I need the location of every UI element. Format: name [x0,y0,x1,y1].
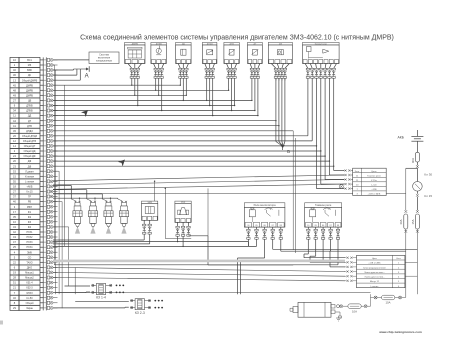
svg-text:ДНО: ДНО [27,267,32,270]
svg-text:ДПКВ: ДПКВ [26,105,33,108]
svg-text:15А: 15А [411,219,415,224]
svg-text:Блок предохранителей: Блок предохранителей [363,266,386,269]
svg-text:L-лин: L-лин [371,184,377,186]
svg-text:К 15а: К 15а [371,180,377,182]
svg-text:ЭМК: ЭМК [27,251,33,254]
svg-text:Цепь: Цепь [371,171,377,173]
svg-text:Масса2: Масса2 [25,277,34,280]
svg-text:КЗ 1-4: КЗ 1-4 [96,296,106,300]
svg-text:Кл.15: Кл.15 [26,191,33,194]
svg-text:Реле вентилятора: Реле вентилятора [254,203,276,207]
svg-text:www.chip-tuningmotors.com: www.chip-tuningmotors.com [378,330,422,334]
svg-text:МЗ: МЗ [28,64,32,67]
svg-text:КЗ2-3: КЗ2-3 [26,287,33,290]
svg-text:Конт: Конт [396,258,401,260]
svg-text:ДФ: ДФ [28,160,32,163]
svg-text:Общий: Общий [26,302,35,305]
svg-text:АКБ: АКБ [398,136,405,140]
svg-text:ДМРВ: ДМРВ [26,89,33,92]
svg-text:90А: 90А [411,158,415,163]
svg-text:Б: Б [287,149,290,154]
svg-text:Схема соединений элементов сис: Схема соединений элементов системы управ… [80,33,394,41]
svg-text:Общий ДТ: Общий ДТ [24,145,36,148]
svg-text:Лампа диагностики +: Лампа диагностики + [364,272,385,274]
svg-text:ДТВ: ДТВ [27,125,32,128]
svg-text:ЦВ: ЦВ [28,100,32,103]
svg-text:Лампа диагностики -: Лампа диагностики - [364,277,384,279]
svg-text:ЭПХХ: ЭПХХ [26,292,33,295]
svg-text:+12В от АКБ: +12В от АКБ [368,193,381,196]
svg-text:ТАХО: ТАХО [26,261,32,264]
svg-text:+12В от АКБ: +12В от АКБ [368,262,381,265]
svg-text:РХХ1: РХХ1 [26,231,33,234]
svg-text:+12В: +12В [371,189,377,191]
svg-text:10А: 10А [352,309,357,313]
svg-text:10А: 10А [386,301,391,305]
svg-text:РХХ2: РХХ2 [26,236,33,239]
svg-text:Минус 12: Минус 12 [370,281,380,283]
svg-text:ВС1: ВС1 [27,59,32,62]
svg-text:L-линия: L-линия [25,181,35,184]
svg-text:ДПКВ: ДПКВ [26,110,33,113]
svg-text:ДД: ДД [28,115,32,118]
svg-text:А: А [85,74,89,80]
svg-text:Кл.50: Кл.50 [26,297,33,300]
svg-text:Масса1: Масса1 [25,272,34,275]
svg-text:ВЗФ: ВЗФ [27,69,32,72]
svg-text:кондиционера: кондиционера [96,60,112,63]
svg-text:Общий ДД: Общий ДД [24,150,36,153]
svg-text:30А: 30А [399,219,403,224]
svg-text:Главное реле: Главное реле [367,175,382,177]
svg-text:Общий ДФ: Общий ДФ [24,155,36,158]
svg-text:РХХ4: РХХ4 [26,246,33,249]
svg-text:Л.диагн: Л.диагн [25,170,34,173]
svg-text:Главное реле: Главное реле [315,203,332,207]
svg-text:Кл 15: Кл 15 [424,194,432,198]
svg-text:ГР: ГР [28,196,31,199]
svg-text:РВ: РВ [28,201,32,204]
svg-text:К-линия: К-линия [25,175,35,178]
svg-text:Цепь: Цепь [372,258,377,260]
svg-text:Конт: Конт [355,171,360,173]
svg-text:РХХ3: РХХ3 [26,241,33,244]
svg-text:ДТ: ДТ [28,120,32,123]
svg-text:L-линия: L-линия [371,286,379,288]
svg-text:Кл 30: Кл 30 [424,173,432,177]
svg-text:Общий ДТВ: Общий ДТВ [23,140,37,143]
svg-text:Общий ДПДЗ: Общий ДПДЗ [22,135,37,138]
svg-text:ДС: ДС [28,74,32,77]
svg-text:ДПДЗ: ДПДЗ [26,130,33,133]
svg-text:ДМРВ: ДМРВ [26,94,33,97]
svg-text:ДФ: ДФ [28,165,32,168]
svg-text:ДМРВ: ДМРВ [26,84,33,87]
svg-text:+АКБ: +АКБ [27,186,33,189]
svg-text:Общий ДМРВ: Общий ДМРВ [22,79,38,82]
svg-text:КЗ1-4: КЗ1-4 [26,282,33,285]
svg-text:КЗ 2-3: КЗ 2-3 [135,311,145,315]
svg-text:Экран: Экран [26,307,33,310]
svg-text:СО: СО [28,256,32,259]
svg-text:РБН: РБН [27,206,32,209]
